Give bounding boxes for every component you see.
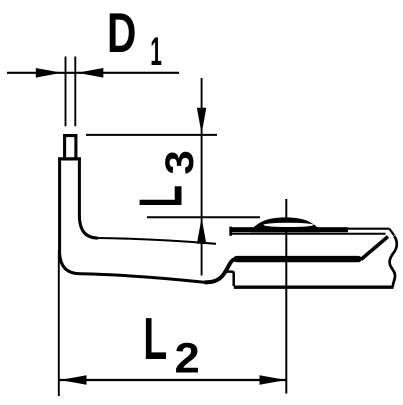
L3 top extension line — [86, 134, 217, 136]
label L2 — [143, 305, 200, 383]
dimension line D1 — [7, 72, 179, 74]
handle chamfer — [361, 237, 388, 260]
dimension line L2 — [60, 379, 287, 381]
D1 right arrow — [77, 68, 103, 78]
handle plate bottom — [231, 233, 386, 235]
L2 left extension line — [58, 250, 60, 396]
svg-text:D: D — [107, 1, 136, 64]
L2 left arrow — [60, 375, 87, 385]
shaft outer edge and arm bottom edge — [60, 159, 206, 283]
handle ferrule bar — [231, 227, 349, 232]
tool tip pin — [65, 136, 76, 160]
L3 bottom arrow — [197, 218, 206, 244]
shaft inner edge — [79, 159, 98, 238]
handle bottom edge — [234, 286, 394, 289]
L3 bottom extension line — [147, 216, 260, 218]
L2 right arrow — [260, 375, 287, 385]
handle plate left edge — [229, 227, 232, 236]
thumb dome — [251, 217, 320, 232]
L3 dimension line — [201, 78, 203, 276]
label D1 — [107, 1, 162, 74]
svg-text:3: 3 — [158, 150, 202, 175]
arm top edge — [96, 238, 216, 244]
svg-text:2: 2 — [175, 334, 200, 382]
svg-text:1: 1 — [150, 30, 162, 74]
handle plate top — [344, 228, 389, 230]
blade S-curve into handle — [205, 258, 239, 282]
svg-text:L: L — [126, 185, 194, 207]
handle top bar — [234, 256, 362, 262]
D1 left arrow — [36, 68, 62, 78]
label L3 rotated — [126, 150, 202, 207]
L2 right extension line — [285, 199, 287, 394]
D1 extension line right — [74, 57, 76, 127]
handle plate right bevel — [389, 229, 394, 236]
D1 extension line left — [65, 57, 67, 127]
shaft shoulder — [58, 157, 81, 160]
break line — [390, 236, 397, 287]
L3 top arrow — [197, 108, 206, 134]
handle front notch — [226, 272, 234, 286]
svg-text:L: L — [143, 305, 167, 372]
